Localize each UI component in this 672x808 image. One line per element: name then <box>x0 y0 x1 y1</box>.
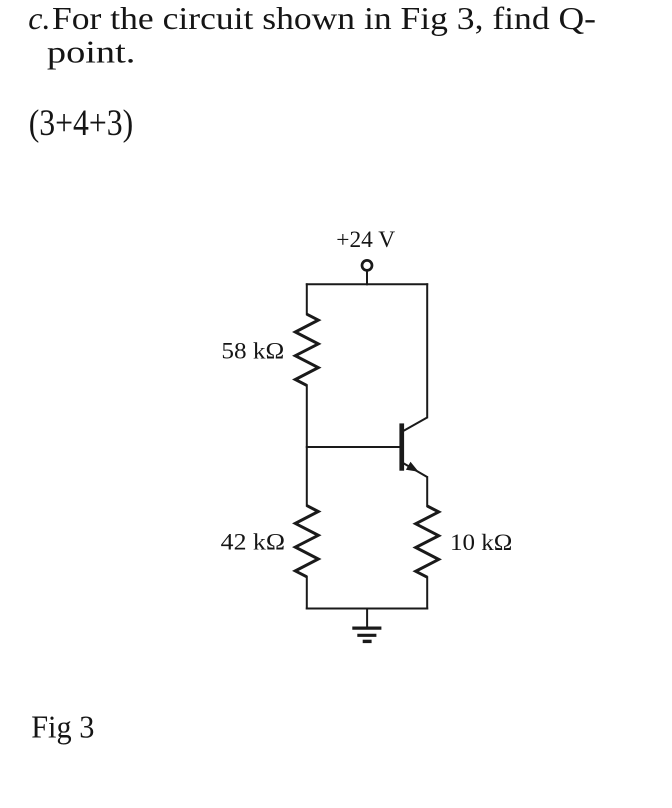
wire right lower (10k bottom to bottom rail) <box>426 576 428 609</box>
svg-text:(3+4+3): (3+4+3) <box>29 102 134 143</box>
wire collector vertical <box>426 283 428 418</box>
wire left middle (58k bottom to 42k top, through base node) <box>306 384 308 506</box>
wire ground stub <box>366 608 368 629</box>
resistor R2 42 kOhm zigzag <box>295 506 318 577</box>
wire emitter vertical <box>426 476 428 507</box>
svg-text:42 kΩ: 42 kΩ <box>221 529 285 554</box>
svg-text:c.: c. <box>28 0 50 36</box>
resistor R3 10 kOhm zigzag <box>416 506 439 577</box>
resistor R1 58 kOhm zigzag <box>295 314 318 385</box>
transistor Q1 emitter lead diagonal <box>403 463 428 477</box>
transistor Q1 base bar <box>399 423 404 470</box>
wire bottom horizontal <box>306 608 428 610</box>
svg-text:+24 V: +24 V <box>336 227 395 252</box>
wire left lower (42k bottom to bottom rail) <box>306 576 308 610</box>
svg-text:point.: point. <box>47 34 135 70</box>
transistor Q1 collector lead diagonal <box>403 417 428 431</box>
svg-text:10 kΩ: 10 kΩ <box>450 530 512 555</box>
svg-text:For the circuit shown in Fig 3: For the circuit shown in Fig 3, find Q- <box>52 0 596 36</box>
supply terminal node VCC <box>362 260 372 285</box>
transistor Q1 emitter arrow <box>406 462 419 472</box>
wire base horizontal <box>306 446 400 448</box>
wire top horizontal <box>306 283 428 285</box>
svg-text:58 kΩ: 58 kΩ <box>221 338 284 363</box>
ground symbol <box>352 628 381 641</box>
svg-text:Fig 3: Fig 3 <box>31 708 94 744</box>
wire left upper <box>306 283 308 315</box>
